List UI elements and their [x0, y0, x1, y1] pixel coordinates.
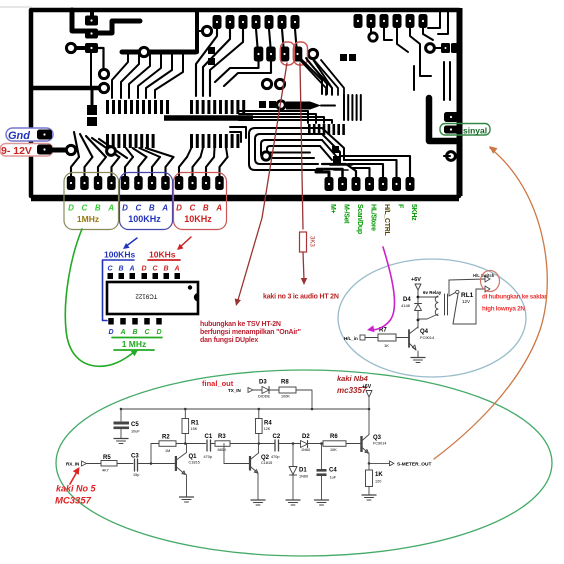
- svg-text:hubungkan ke TSV HT-2N: hubungkan ke TSV HT-2N: [200, 321, 281, 328]
- trace P3 down: [98, 48, 104, 74]
- pad R7: [406, 177, 415, 191]
- svg-text:C2: C2: [273, 434, 281, 440]
- svg-text:4K7: 4K7: [102, 469, 109, 473]
- capacitor C4: [321, 444, 323, 470]
- svg-text:DIODE: DIODE: [258, 395, 270, 399]
- link pad A6 to row B: [282, 29, 284, 47]
- pad C11: [202, 176, 211, 190]
- svg-text:100K: 100K: [281, 395, 290, 399]
- svg-text:10K: 10K: [330, 448, 337, 452]
- svg-text:D: D: [156, 329, 161, 336]
- trace pad R4: [352, 168, 370, 177]
- pad T2: [367, 14, 376, 28]
- svg-text:B: B: [163, 266, 168, 273]
- trace pad R2: [317, 169, 343, 177]
- svg-text:3K3: 3K3: [309, 236, 315, 247]
- wire D4 to junction: [417, 311, 419, 321]
- PCB border top/left: [31, 10, 459, 196]
- IC U2 pad comb top-left: [106, 100, 109, 114]
- svg-text:C1: C1: [205, 434, 213, 440]
- svg-text:A: A: [128, 266, 134, 273]
- wire R7 to Q4 base: [396, 337, 409, 339]
- svg-text:5KHz: 5KHz: [410, 204, 417, 221]
- wire into D4: [417, 297, 419, 304]
- pad Gnd: [37, 130, 52, 140]
- SMD pad S2: [87, 117, 97, 126]
- svg-text:C: C: [82, 204, 88, 213]
- pad R3: [352, 177, 361, 191]
- svg-text:D3: D3: [259, 380, 267, 386]
- svg-text:15K: 15K: [191, 427, 198, 431]
- svg-text:12K: 12K: [264, 427, 271, 431]
- red annotation line A (diagonal): [238, 63, 287, 300]
- svg-text:A: A: [119, 329, 125, 336]
- ground Q2: [251, 499, 265, 501]
- PCB border bottom: [31, 195, 459, 202]
- stub pad T2: [370, 28, 372, 32]
- trace pad T3: [384, 28, 392, 40]
- fan from thick trace to comb1: [112, 54, 128, 98]
- svg-text:A: A: [173, 266, 179, 273]
- via V14: [66, 145, 75, 154]
- switch blade: [453, 294, 458, 324]
- svg-text:C: C: [190, 204, 196, 213]
- pad R5: [379, 177, 388, 191]
- svg-text:kaki No 5: kaki No 5: [56, 484, 97, 494]
- arrowhead: [177, 244, 184, 250]
- pad stub 6: [139, 157, 147, 176]
- svg-text:RL1: RL1: [461, 292, 474, 299]
- svg-text:C: C: [136, 204, 142, 213]
- svg-text:1uF: 1uF: [330, 476, 337, 480]
- transistor Q1: [175, 456, 177, 471]
- svg-text:120: 120: [375, 480, 381, 484]
- svg-text:kaki no 3 ic audio HT 2N: kaki no 3 ic audio HT 2N: [263, 294, 339, 301]
- pad A2: [226, 15, 235, 29]
- comb right stubs x344: [343, 95, 345, 120]
- pad A4: [252, 15, 261, 29]
- trace pad R5: [348, 164, 383, 177]
- arrowhead: [73, 467, 80, 475]
- svg-text:B: B: [149, 204, 155, 213]
- TC9122 bottom pin stubs: [108, 318, 114, 325]
- via V7: [262, 79, 271, 88]
- svg-text:D1: D1: [299, 468, 307, 474]
- thick middle bus: [164, 115, 253, 121]
- ground D1: [286, 499, 300, 501]
- IC U2 pad comb bottom-left: [106, 134, 109, 148]
- pad sinyal-upper: [444, 112, 458, 122]
- big green ellipse: [56, 370, 552, 556]
- wire +6V down: [417, 290, 419, 297]
- pad B1: [254, 47, 263, 62]
- green underline 1MHz bottom: [114, 349, 154, 351]
- svg-text:H/L_CTRL: H/L_CTRL: [383, 204, 390, 236]
- svg-text:B: B: [118, 266, 123, 273]
- pad R6: [392, 177, 401, 191]
- trace pad R1: [316, 172, 329, 177]
- svg-text:470p: 470p: [271, 455, 279, 459]
- svg-text:R3: R3: [218, 434, 226, 440]
- svg-text:C1815: C1815: [189, 461, 200, 465]
- pad P1: [85, 16, 98, 26]
- vertical bundle x330 down: [300, 58, 322, 94]
- svg-text:1N60: 1N60: [301, 448, 310, 452]
- via V4: [139, 47, 148, 56]
- svg-text:R4: R4: [264, 421, 272, 427]
- via V3: [99, 83, 108, 92]
- svg-text:1K: 1K: [375, 472, 383, 478]
- blue group box 100KHz: [120, 173, 173, 230]
- blue arrow from 100KHz box: [125, 238, 137, 247]
- pad A1: [213, 15, 222, 29]
- red circle around H/L switch: [481, 271, 500, 292]
- pad C2: [80, 176, 89, 190]
- comb right-mid vertical stubs: [308, 124, 311, 135]
- stub pad1 to border: [90, 10, 94, 16]
- diode D4: [415, 303, 422, 305]
- svg-text:M+: M+: [329, 204, 336, 214]
- trace elbow top-left: [72, 10, 85, 31]
- red circle highlight pad B4: [281, 42, 295, 65]
- via V6: [308, 49, 317, 58]
- pad stub 5: [125, 157, 133, 176]
- olive group box 1MHz: [64, 173, 119, 230]
- pad A5: [265, 15, 274, 29]
- trace pad R7: [340, 156, 410, 177]
- pin H/L switch 1: [485, 276, 490, 282]
- arrowhead: [367, 325, 375, 332]
- light blue ellipse: [338, 259, 526, 377]
- svg-text:470p: 470p: [204, 455, 212, 459]
- top power rail: [121, 408, 369, 410]
- faint top-left edge line: [0, 6, 31, 8]
- link pad A7 to row B: [295, 29, 297, 47]
- resistor R1: [184, 409, 186, 419]
- PCB border right: [457, 8, 463, 196]
- 9-12V label box: [0, 144, 53, 157]
- pad stub 3: [98, 157, 106, 176]
- svg-text:A: A: [161, 204, 168, 213]
- via V8: [275, 79, 284, 88]
- svg-text:D: D: [141, 266, 146, 273]
- svg-text:1M: 1M: [165, 449, 170, 453]
- blue bracket: [103, 260, 135, 321]
- base line to Q1: [139, 463, 176, 465]
- pad T3: [380, 14, 389, 28]
- svg-text:D: D: [68, 204, 74, 213]
- svg-text:sinyal: sinyal: [463, 126, 487, 136]
- pad sinyal: [444, 126, 458, 134]
- trace from pad B2: [224, 61, 271, 86]
- thick L trace right: [429, 98, 456, 141]
- svg-text:final_out: final_out: [202, 379, 234, 388]
- svg-text:D: D: [122, 204, 128, 213]
- svg-text:berfungsi menampilkan "OnAir": berfungsi menampilkan "OnAir": [200, 329, 301, 336]
- pad stub 12: [220, 157, 228, 176]
- +6V arrow symbol: [415, 284, 421, 290]
- wire Q4 emitter down: [417, 351, 419, 357]
- pad C8: [161, 176, 170, 190]
- pad T6: [419, 14, 428, 28]
- svg-text:D: D: [176, 204, 182, 213]
- IC U1 TC9122 body: [107, 282, 198, 314]
- pad A6: [278, 15, 287, 29]
- svg-text:6v Relay: 6v Relay: [423, 290, 442, 295]
- svg-text:R2: R2: [162, 435, 170, 441]
- transistor Q2: [249, 456, 251, 471]
- wire R8 to rail: [296, 390, 312, 409]
- elbow traces below bus: [230, 127, 246, 138]
- sinyal green box: [440, 124, 490, 136]
- pad A7: [291, 15, 300, 29]
- pad T5: [406, 14, 415, 28]
- via V1: [66, 43, 75, 52]
- red arrow from 10KHz box: [179, 237, 191, 248]
- magenta arrow curve: [372, 247, 395, 330]
- stub via V13: [444, 155, 450, 157]
- thick trace from 9-12V pad: [52, 148, 66, 153]
- base link Q2: [224, 463, 249, 465]
- pad stub 4: [112, 157, 120, 176]
- pad T4: [393, 14, 402, 28]
- via V5: [202, 26, 211, 35]
- svg-text:Q3: Q3: [373, 435, 382, 441]
- nested corner traces right: [443, 62, 445, 100]
- arrowhead line B: [301, 278, 307, 285]
- svg-text:D: D: [108, 329, 113, 336]
- pad stub 1: [71, 157, 79, 176]
- stub down to SMD pads: [91, 90, 94, 105]
- pad B3: [280, 47, 290, 62]
- pad C5: [121, 176, 130, 190]
- svg-text:B: B: [95, 204, 101, 213]
- pad 9-12V: [37, 145, 52, 155]
- arrowhead: [131, 350, 138, 356]
- pad C3: [94, 176, 103, 190]
- thin vertical from pad P3 area: [90, 53, 92, 86]
- thick vertical trace: [195, 10, 199, 52]
- svg-text:high lownya 2N: high lownya 2N: [482, 306, 525, 313]
- pad stub 2: [85, 157, 93, 176]
- svg-text:4148: 4148: [401, 303, 411, 308]
- svg-text:R6: R6: [330, 434, 338, 440]
- pad R2: [338, 177, 347, 191]
- tapered thick trace: [286, 102, 321, 110]
- svg-text:+6V: +6V: [362, 384, 372, 390]
- SMD pad right1: [441, 43, 450, 53]
- svg-text:TC9122: TC9122: [135, 293, 158, 300]
- svg-text:D2: D2: [302, 434, 310, 440]
- SMD pad right2: [451, 43, 459, 53]
- svg-text:10KHz: 10KHz: [184, 214, 212, 224]
- ground 1K: [362, 494, 376, 496]
- svg-text:TX_IN: TX_IN: [228, 388, 241, 393]
- trace pad T5: [410, 28, 420, 58]
- wire coil bottom to junction: [418, 314, 438, 319]
- trace pad R6: [344, 160, 397, 177]
- red underline 10KHs: [148, 259, 180, 261]
- hairpin tails: [322, 128, 344, 160]
- red arrow kaki no 5: [70, 470, 78, 484]
- SMD pad S1: [87, 105, 97, 115]
- trace P3 to via: [77, 46, 85, 50]
- S-METER_OUT pin: [369, 462, 389, 464]
- SMD square pads: [208, 47, 215, 54]
- via V12: [426, 44, 435, 53]
- capacitor C5: [120, 409, 122, 421]
- pad C12: [215, 176, 224, 190]
- pad C9: [175, 176, 184, 190]
- link pad A5 to row B: [269, 29, 271, 47]
- thick trace left horizontal: [32, 86, 100, 91]
- pad T1: [354, 14, 363, 28]
- svg-text:B: B: [132, 329, 137, 336]
- horizontal bundle center-right: [239, 111, 308, 123]
- svg-text:Q1: Q1: [189, 454, 198, 460]
- thin trace cont: [321, 105, 335, 107]
- svg-text:FC9014: FC9014: [420, 335, 435, 340]
- svg-text:10uF: 10uF: [131, 430, 140, 434]
- pad stub 7: [152, 157, 160, 176]
- svg-text:680K: 680K: [218, 448, 227, 452]
- resistor R4: [258, 409, 260, 419]
- svg-text:B: B: [203, 204, 209, 213]
- svg-text:12V: 12V: [462, 299, 470, 304]
- trace pad R3: [322, 164, 356, 177]
- via V15: [107, 147, 116, 156]
- link pad A4 to row B: [256, 29, 258, 47]
- pad sinyal inner: [444, 126, 458, 134]
- svg-text:FC9014: FC9014: [373, 442, 387, 446]
- svg-text:MC3357: MC3357: [55, 496, 92, 507]
- via V13: [447, 152, 456, 161]
- relay switch contacts: [448, 280, 450, 296]
- pad R4: [365, 177, 374, 191]
- extra diagonal: [99, 139, 127, 158]
- right corner elbows: [428, 12, 440, 28]
- svg-text:1K: 1K: [384, 343, 389, 348]
- transistor Q3: [360, 436, 362, 452]
- svg-text:C4: C4: [329, 468, 337, 474]
- via V2: [99, 69, 108, 78]
- pin H/L switch 2: [485, 286, 490, 292]
- resistor 1K: [368, 463, 370, 470]
- svg-text:dan fungsi DUplex: dan fungsi DUplex: [200, 337, 258, 344]
- pad B4: [293, 47, 303, 62]
- pad C4: [107, 176, 116, 190]
- via V10: [262, 152, 270, 160]
- pad C10: [188, 176, 197, 190]
- pad A3: [239, 15, 248, 29]
- pad B2: [266, 47, 276, 62]
- wire R2 to base line: [151, 444, 159, 464]
- wire to Q4 collector: [417, 320, 419, 328]
- diode D1: [292, 444, 294, 467]
- trace pad T4: [397, 28, 408, 52]
- thick horizontal trace: [122, 50, 196, 55]
- red annotation line B (vertical): [300, 63, 303, 229]
- pad R1: [325, 177, 334, 191]
- pad P2: [85, 29, 98, 39]
- svg-text:100KHs: 100KHs: [104, 250, 135, 260]
- trace from pad A2: [203, 29, 230, 96]
- svg-text:1 MHz: 1 MHz: [122, 339, 147, 349]
- red circle highlight pad B5: [294, 42, 308, 65]
- pad stub 11: [206, 157, 214, 176]
- ground C5: [114, 438, 128, 440]
- svg-text:M-/Set: M-/Set: [343, 204, 350, 224]
- svg-text:10KHs: 10KHs: [149, 250, 176, 260]
- via V11: [369, 33, 377, 41]
- pad C1: [67, 176, 76, 190]
- svg-text:100KHz: 100KHz: [128, 214, 161, 224]
- svg-text:Gnd: Gnd: [8, 130, 30, 142]
- green underline 1MHz top: [112, 337, 162, 339]
- via V9: [277, 101, 285, 109]
- resistor 3K3 annotation: [300, 232, 307, 252]
- pad stub 10: [193, 157, 201, 176]
- +6V arrow bottom: [366, 391, 372, 398]
- wire to relay coil top: [418, 296, 438, 298]
- svg-text:C1815: C1815: [261, 461, 272, 465]
- collector/feedback line y443.5: [176, 443, 206, 445]
- svg-text:Scan/Dup: Scan/Dup: [356, 204, 363, 234]
- connect hairpin to right pads zone: [330, 164, 352, 166]
- arrowhead line A: [235, 298, 241, 306]
- trace from pad A3: [210, 29, 243, 96]
- Gnd label box: [6, 128, 53, 141]
- trace from pad A1: [196, 29, 217, 96]
- svg-text:HL/Store: HL/Store: [370, 204, 377, 231]
- svg-text:A: A: [107, 204, 114, 213]
- svg-text:C5: C5: [131, 422, 139, 428]
- orange curve to sinyal: [434, 148, 547, 459]
- svg-text:RX_IN: RX_IN: [66, 461, 79, 466]
- hairpin trace bundle: [249, 128, 322, 170]
- svg-text:kaki Nb4: kaki Nb4: [337, 374, 369, 383]
- svg-text:1MHz: 1MHz: [77, 214, 99, 224]
- IC U3 pad comb top-right: [190, 100, 193, 114]
- resistor R7: [378, 334, 396, 341]
- arrowhead: [489, 146, 498, 154]
- svg-text:di hubungkan ke saklar: di hubungkan ke saklar: [482, 294, 547, 301]
- ground Q1: [180, 496, 194, 498]
- pad stub 8: [166, 157, 174, 176]
- svg-text:C3: C3: [131, 454, 139, 460]
- stub to via V5: [199, 30, 203, 32]
- trace from pad B1: [215, 61, 259, 82]
- ground C4: [315, 499, 329, 501]
- pad P3: [85, 43, 98, 53]
- arrowhead: [123, 243, 130, 249]
- pad C6: [134, 176, 143, 190]
- comb drop traces: [126, 148, 133, 157]
- pad stub 9: [179, 157, 187, 176]
- diagonal trace fan bottom-left: [74, 132, 79, 157]
- staircase trace from P2: [98, 21, 140, 33]
- pad C7: [148, 176, 157, 190]
- mid-right diagonal bundle: [300, 60, 326, 95]
- transistor Q4: [408, 330, 410, 347]
- svg-text:15p: 15p: [133, 473, 139, 477]
- svg-text:+6V: +6V: [411, 277, 421, 283]
- svg-text:A: A: [215, 204, 222, 213]
- IC U3 pad comb bottom-right: [190, 134, 193, 148]
- svg-text:S-METER_OUT: S-METER_OUT: [397, 462, 431, 468]
- ground Q4: [411, 357, 425, 359]
- TC9122 top pin stubs: [108, 273, 114, 279]
